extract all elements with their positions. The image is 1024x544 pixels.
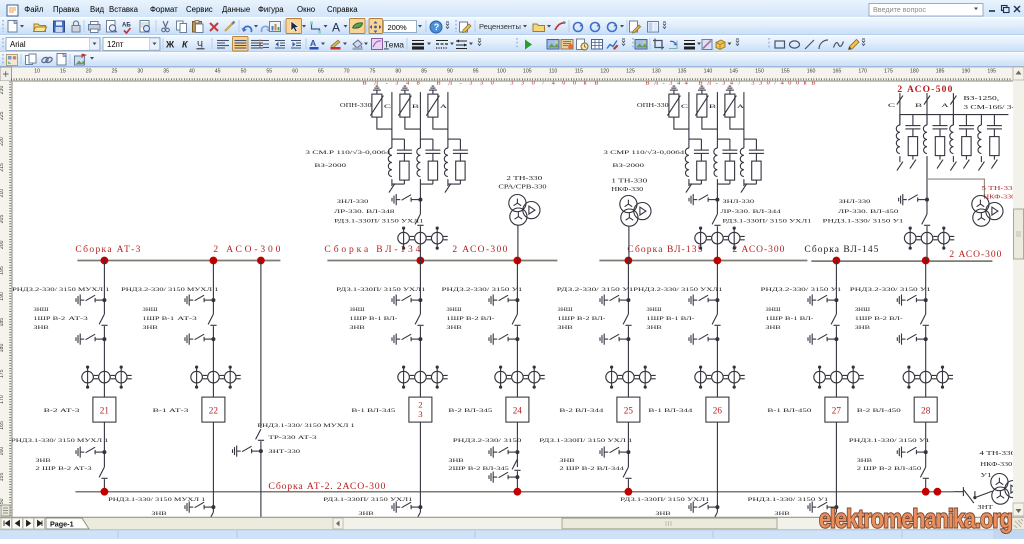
svg-text:В-2 ВЛ-345: В-2 ВЛ-345 (448, 408, 492, 414)
svg-text:А: А (941, 103, 948, 109)
wire phase С (688, 92, 690, 148)
toolbar icon crop (653, 39, 664, 50)
svg-text:170: 170 (858, 69, 867, 75)
svg-text:В: В (915, 103, 923, 109)
slash phase В (АСО-500) (924, 96, 930, 105)
toolbar icon clockpg (577, 39, 589, 50)
page navigation buttons (1, 518, 12, 529)
current transformers of feeder Q27 (814, 366, 864, 389)
earthing switch ЗНЛ-330 (АСО-500) (899, 194, 929, 205)
disconnector (lower) of Q28 (920, 467, 929, 478)
formatting toolbar row (0, 35, 1024, 52)
wire feeder Q26 below disconnector (716, 326, 718, 397)
svg-text:50: 50 (241, 69, 247, 75)
wire АСО-500 middle phase to bus 4 (926, 156, 928, 214)
toolbar icon shape window (533, 24, 545, 32)
toolbar icon line tool (805, 40, 814, 49)
toolbar icon export image (75, 54, 86, 65)
wire arrester to phase В (702, 117, 718, 129)
svg-text:30: 30 (137, 69, 143, 75)
wire phase А (АСО-500) (952, 93, 954, 125)
filter coil 3 (АСО-500) (952, 115, 954, 126)
wire feeder Q24 upper section (516, 261, 518, 315)
toolbar icon search (140, 21, 150, 33)
wire feeder Q25 upper section (627, 261, 629, 315)
toolbar icon delete (210, 23, 218, 31)
svg-text:Ж: Ж (165, 40, 175, 50)
svg-text:220: 220 (0, 137, 5, 146)
toolbar icon preview (107, 21, 117, 33)
svg-text:1ШР В-2: 1ШР В-2 (33, 316, 65, 322)
ask-a-question box (869, 4, 983, 17)
wire feeder Q21 to lower bus (103, 422, 105, 467)
svg-text:Сборка ВЛ-135: Сборка ВЛ-135 (627, 244, 702, 255)
svg-text:Вставка: Вставка (109, 5, 139, 14)
toolbar icon text tool (332, 21, 340, 35)
svg-text:ЗНВ: ЗНВ (446, 325, 462, 331)
svg-text:ЗНВ: ЗНВ (349, 325, 365, 331)
wire phase А (743, 92, 745, 148)
svg-text:В-2 ВЛ-344: В-2 ВЛ-344 (559, 408, 603, 414)
toolbar icon spelling (122, 23, 131, 34)
svg-text:ЗНВ: ЗНВ (765, 325, 781, 331)
resize grip (1012, 518, 1024, 530)
toolbar icon transparency (702, 40, 712, 50)
slash phase А (АСО-500) (950, 96, 956, 105)
svg-text:АТ-3: АТ-3 (68, 316, 88, 322)
toolbar icon rectangle tool (775, 41, 785, 48)
toolbar icon picture (635, 40, 647, 50)
svg-text:РНДЗ.1-330/ 3150 МУХЛ 1: РНДЗ.1-330/ 3150 МУХЛ 1 (257, 423, 355, 429)
svg-text:2 ШР В-2 ВЛ-450: 2 ШР В-2 ВЛ-450 (857, 466, 922, 472)
bus Сборка АТ-2, 2АСО-300 (lower) (75, 491, 953, 493)
svg-text:РДЗ.1-330П/ 3150 УХЛ1: РДЗ.1-330П/ 3150 УХЛ1 (336, 287, 425, 293)
svg-text:3: 3 (418, 409, 423, 419)
svg-text:ЛР-330. ВЛ-348: ЛР-330. ВЛ-348 (334, 209, 395, 215)
circuit breaker 24 (506, 397, 529, 422)
node: lower bus junction of Q21 (101, 488, 109, 496)
svg-text:ЗНШ: ЗНШ (446, 307, 462, 313)
toolbar icon page props (57, 54, 66, 66)
toolbar icon rotate (669, 41, 677, 49)
toolbar icon connector tool (310, 22, 321, 34)
node: bus junction of feeder Q24 (514, 257, 522, 265)
earthing switch ЗНВ of Q27 (808, 334, 838, 345)
disconnector (lower) of Q25 (623, 467, 632, 478)
disconnector below lower bus of Q27 (clipped) (831, 512, 840, 523)
svg-text:2 АСО-500: 2 АСО-500 (897, 85, 952, 95)
svg-text:ЗНВ: ЗНВ (559, 458, 575, 464)
toolbar icon columns (648, 22, 659, 33)
svg-text:ТР-330 АТ-3: ТР-330 АТ-3 (268, 435, 316, 441)
wire feeder Q28 to lower bus (925, 422, 927, 467)
toolbar icon pic2 (561, 40, 573, 50)
capacitor + resistor branch phase В (722, 139, 737, 184)
svg-text:75: 75 (370, 69, 376, 75)
svg-text:185: 185 (936, 69, 945, 75)
toolbar icon pan-zoom (370, 21, 382, 33)
wire ТН-330 to bus 3 (628, 226, 630, 260)
wire tap to 5 ТН-330 (927, 179, 984, 196)
svg-text:РДЗ.1-330П/ 3150 УХЛ1: РДЗ.1-330П/ 3150 УХЛ1 (334, 219, 423, 225)
earthing switch ЗНВ of Q22 (185, 334, 215, 345)
svg-text:105: 105 (523, 69, 532, 75)
svg-text:215: 215 (0, 163, 5, 172)
wire feeder Q22 below disconnector (212, 326, 214, 397)
wire feeder Q21 below disconnector (103, 326, 105, 397)
svg-text:Файл: Файл (24, 5, 44, 14)
svg-text:180: 180 (910, 69, 919, 75)
wire feeder Q26 crossing lower bus (716, 422, 718, 512)
filter capacitor+resistor 4 (АСО-500) (987, 115, 1002, 160)
earthing switch ЗНВ of Q24 (489, 334, 519, 345)
toolbar icon pic1 (547, 40, 559, 50)
line trap coil phase В (714, 148, 718, 176)
toolbar icon help (430, 21, 442, 33)
svg-text:Вид: Вид (90, 5, 105, 14)
current transformers of feeder Q28 (903, 366, 953, 389)
svg-text:25: 25 (624, 406, 634, 416)
line colour (331, 40, 340, 48)
slash below resistor 1 (910, 160, 916, 169)
toolbar icon refresh1 (574, 23, 584, 32)
svg-text:185: 185 (0, 318, 5, 327)
toolbar icon lock (72, 21, 80, 32)
wire phase С (391, 92, 393, 148)
svg-text:21: 21 (100, 406, 110, 416)
earthing switch ЗНВ of Q28 (897, 334, 927, 345)
svg-text:ВЗ-1250,: ВЗ-1250, (963, 96, 1000, 102)
slash phase С (АСО-500) (897, 96, 903, 105)
decrease indent (275, 41, 285, 49)
earthing switch (lower) of Q21 (76, 447, 106, 458)
svg-text:225: 225 (0, 111, 5, 120)
standard toolbar row (0, 17, 1024, 35)
toolbar icon ellipse tool (790, 41, 800, 48)
svg-text:26: 26 (713, 406, 723, 416)
wire re-join phase В (717, 179, 730, 184)
wire feeder Q21 upper section (103, 261, 105, 315)
vertical scrollbar thumb (1014, 209, 1024, 259)
svg-text:25: 25 (112, 69, 118, 75)
svg-text:195: 195 (987, 69, 996, 75)
wire re-join phase А (448, 179, 461, 184)
earthing switch 2 (lower) of Q24 (489, 472, 519, 483)
svg-text:95: 95 (473, 69, 479, 75)
svg-text:ОПН-330: ОПН-330 (340, 102, 372, 109)
svg-text:2 ШР В-2 АТ-3: 2 ШР В-2 АТ-3 (35, 466, 92, 472)
wire capacitor branch tap phase А (744, 138, 757, 140)
wire arrester to phase В (405, 117, 421, 129)
toolbar icon paste (193, 21, 204, 33)
svg-text:1ШР В-1: 1ШР В-1 (142, 316, 174, 322)
svg-text:А: А (440, 104, 447, 110)
toolbar icon pencil tool (849, 40, 860, 50)
svg-text:ЗНВ: ЗНВ (655, 511, 671, 517)
capacitor + resistor branch phase А (453, 139, 468, 184)
capacitor + resistor branch phase С (397, 139, 412, 184)
svg-text:155: 155 (0, 473, 5, 482)
svg-text:150: 150 (755, 69, 764, 75)
toolbar icon insert picture (270, 22, 281, 32)
svg-text:190: 190 (0, 292, 5, 301)
wire capacitor branch tap phase В (717, 138, 730, 140)
line trap coil phase С (388, 148, 392, 176)
toolbar icon freeform tool (353, 23, 363, 28)
current transformers of feeder Q24 (495, 366, 545, 389)
svg-text:ЗНШ: ЗНШ (646, 307, 662, 313)
svg-text:РНДЗ.2-330/ 3150 МУХЛ 1: РНДЗ.2-330/ 3150 МУХЛ 1 (12, 287, 110, 293)
svg-text:ЗНВ: ЗНВ (35, 458, 51, 464)
node: bus junction of feeder Q21 (101, 257, 109, 265)
wire feeder Q24 to lower bus (516, 422, 518, 467)
svg-text:РДЗ.1-330П/ 3150 УХЛ1: РДЗ.1-330П/ 3150 УХЛ1 (722, 219, 811, 225)
svg-text:60: 60 (292, 69, 298, 75)
slash below coil 1 (899, 156, 901, 162)
toolbar icon open (34, 24, 47, 32)
wire ТН-330 to bus 2 (517, 225, 519, 260)
wire capacitor branch tap phase В (420, 138, 433, 140)
wire capacitor branch tap phase С (689, 138, 702, 140)
svg-text:1ШР В-1 ВЛ-: 1ШР В-1 ВЛ- (349, 316, 397, 322)
svg-text:А: А (310, 38, 316, 48)
wire feeder Q28 upper section (925, 261, 927, 315)
svg-text:ЗНВ: ЗНВ (646, 325, 662, 331)
svg-text:Сервис: Сервис (186, 5, 213, 14)
svg-text:ЗНШ: ЗНШ (765, 307, 781, 313)
current transformers (АСО-500 incoming) (904, 227, 954, 250)
svg-text:ВЗ-2000: ВЗ-2000 (314, 163, 346, 169)
svg-text:РНДЗ.1-330/ 3150 У1: РНДЗ.1-330/ 3150 У1 (823, 219, 904, 225)
junction wire АСО-500 bank (900, 114, 1009, 116)
vertical ruler (0, 81, 12, 517)
svg-text:1ШР В-1 ВЛ-: 1ШР В-1 ВЛ- (646, 316, 694, 322)
bus Сборка ВЛ-145 / 2 АСО-300 (811, 260, 992, 262)
disconnector (АСО-500 incoming) (922, 214, 931, 225)
svg-text:3 СМР 110/√3-0,0064: 3 СМР 110/√3-0,0064 (603, 149, 684, 156)
earthing switch below lower bus of Q23 (392, 502, 422, 513)
svg-text:45: 45 (215, 69, 221, 75)
svg-text:Page-1: Page-1 (50, 520, 74, 529)
align right (251, 40, 263, 42)
svg-text:135: 135 (678, 69, 687, 75)
filter capacitor+resistor 2 (АСО-500) (933, 115, 948, 160)
surge arrester ОПН-330 phase А (426, 94, 439, 117)
disconnector of feeder Q26 (712, 314, 721, 325)
wire feeder Q27 upper section (835, 261, 837, 315)
wire phase В (716, 92, 718, 148)
svg-text:100: 100 (497, 69, 506, 75)
wire below disconnector (419, 226, 421, 260)
earthing switch ЗНШ of Q21 (76, 295, 106, 306)
toolbar icon refresh3 (608, 23, 618, 32)
svg-text:НКФ-330: НКФ-330 (611, 187, 643, 193)
toolbar icon run (525, 40, 532, 50)
drawing tool (highlighted) (350, 19, 366, 34)
circuit breaker 26 (706, 397, 729, 422)
disconnector of feeder Q23 (415, 314, 424, 325)
horizontal scrollbar thumb (562, 518, 777, 529)
horizontal ruler (0, 67, 1013, 81)
current transformers of feeder Q25 (606, 366, 656, 389)
svg-text:1ШР В-2 ВЛ-: 1ШР В-2 ВЛ- (446, 316, 494, 322)
circuit breaker 22 (202, 397, 225, 422)
wire phase С (АСО-500) (899, 93, 901, 125)
wire feeder Q22 crossing lower bus (212, 422, 214, 512)
current transformers of feeder Q22 (191, 366, 241, 389)
line weight (412, 40, 424, 42)
svg-text:ЗНЛ-330: ЗНЛ-330 (337, 199, 369, 205)
circuit breaker 23 (409, 397, 432, 422)
line ends (456, 41, 467, 49)
toolbar icon format painter (225, 22, 235, 32)
toolbar icon copy (177, 21, 187, 33)
slash continuation phase А (741, 184, 747, 193)
earthing switch ЗНЛ-330 (392, 194, 422, 205)
node: bus junction of feeder Q26 (714, 257, 722, 265)
filter capacitor+resistor 1 (АСО-500) (905, 115, 920, 160)
svg-text:РНДЗ.1-330/ 3150 МУХЛ 1: РНДЗ.1-330/ 3150 МУХЛ 1 (11, 438, 109, 444)
wire feeder Q23 upper section (419, 261, 421, 315)
earthing switch ЗНВ of Q23 (392, 334, 422, 345)
svg-text:130: 130 (652, 69, 661, 75)
svg-text:ЗНВ: ЗНВ (448, 458, 464, 464)
wire re-join phase А (744, 179, 757, 184)
toolbar icon table (592, 40, 603, 50)
svg-text:170: 170 (0, 395, 5, 404)
surge arrester ОПН-330 phase А (723, 94, 736, 117)
ground of surge arrester 2 (phase А) (726, 86, 734, 94)
earthing switch (lower) of Q25 (600, 447, 630, 458)
svg-text:155: 155 (781, 69, 790, 75)
wire below disconnector (716, 226, 718, 260)
svg-text:В-1 ВЛ-345: В-1 ВЛ-345 (351, 408, 395, 414)
svg-text:ЗНВ: ЗНВ (774, 511, 790, 517)
theme button (372, 39, 383, 50)
svg-text:ЗНШ: ЗНШ (855, 307, 871, 313)
svg-text:ЗНЛ-330: ЗНЛ-330 (722, 199, 754, 205)
toolbar icon new (8, 21, 17, 33)
svg-text:РДЗ.2-330/ 3150 У1: РДЗ.2-330/ 3150 У1 (557, 287, 634, 293)
svg-text:АТ-3: АТ-3 (177, 316, 197, 322)
svg-text:ЗНШ: ЗНШ (349, 307, 365, 313)
disconnector of feeder Q28 (920, 314, 929, 325)
picture line weight (684, 40, 695, 42)
wire feeder Q27 crossing lower bus (835, 422, 837, 512)
filter coil 2 (АСО-500) (926, 115, 928, 126)
svg-text:12пт: 12пт (107, 40, 124, 49)
surge arrester ОПН-330 phase С (370, 94, 383, 117)
toolbar icon shapes window (7, 55, 18, 66)
svg-text:27: 27 (832, 406, 842, 416)
svg-text:85: 85 (421, 69, 427, 75)
voltage transformer 5 ТН-330 (972, 196, 1003, 227)
svg-text:РНДЗ.2-330/ 3150 УХЛ1: РНДЗ.2-330/ 3150 УХЛ1 (633, 287, 722, 293)
svg-text:80: 80 (395, 69, 401, 75)
earthing switch ЗНШ of Q23 (392, 295, 422, 306)
pointer tool (highlighted) (286, 19, 302, 34)
svg-text:РНДЗ.2-330/ 3150: РНДЗ.2-330/ 3150 (453, 438, 522, 444)
ruler corner box (0, 67, 12, 81)
earthing switch ЗНШ of Q27 (808, 295, 838, 306)
status bar (0, 530, 1024, 540)
bullets (259, 41, 261, 48)
earthing switch below lower bus of Q26 (689, 502, 719, 513)
node: bus junction of feeder Q23 (417, 257, 425, 265)
svg-text:РДЗ.1-330П/ 3150 УХЛ 1: РДЗ.1-330П/ 3150 УХЛ 1 (539, 438, 632, 444)
svg-text:ЗНВ: ЗНВ (557, 325, 573, 331)
earthing switch (lower) of Q28 (897, 447, 927, 458)
wire feeder Q22 upper section (212, 261, 214, 315)
font size combo (103, 38, 160, 51)
wire feeder Q23 crossing lower bus (419, 422, 421, 512)
svg-text:Arial: Arial (10, 40, 26, 49)
disconnector of feeder Q27 (831, 314, 840, 325)
svg-text:ЗНВ: ЗНВ (855, 325, 871, 331)
toolbar icon page layers (26, 54, 37, 65)
slash below resistor 2 (937, 160, 943, 169)
svg-text:180: 180 (0, 344, 5, 353)
svg-text:ЗНТ-330: ЗНТ-330 (268, 449, 300, 455)
svg-text:ЗНВ: ЗНВ (151, 511, 167, 517)
mini page icon bottom-left (1, 505, 10, 516)
svg-text:Сборка АТ-2. 2АСО-300: Сборка АТ-2. 2АСО-300 (268, 481, 385, 492)
slash below coil 4 (980, 156, 982, 162)
wire phase В (АСО-500) (926, 93, 928, 125)
earthing switch ЗНВ of Q21 (76, 334, 106, 345)
svg-text:РНДЗ.1-330/ 3150 У1: РНДЗ.1-330/ 3150 У1 (748, 497, 829, 503)
svg-text:210: 210 (0, 189, 5, 198)
svg-text:24: 24 (513, 406, 523, 416)
bus Сборка ВЛ-134 / 2 АСО-300 (327, 260, 557, 262)
svg-text:elektromehanika.org: elektromehanika.org (819, 506, 1012, 534)
pan tool (highlighted) (369, 19, 383, 34)
earthing switch ЗНШ of Q26 (689, 295, 719, 306)
wire arrester to phase А (433, 117, 448, 129)
earthing switch ЗНТ-330 (233, 446, 263, 457)
wire feeder Q26 upper section (716, 261, 718, 315)
svg-text:165: 165 (833, 69, 842, 75)
disconnector of feeder Q21 (99, 314, 108, 325)
wire feeder Q28 below disconnector (925, 326, 927, 397)
fill colour (353, 40, 362, 48)
svg-text:120: 120 (600, 69, 609, 75)
wire phase А (447, 92, 449, 148)
voltage transformer 1 ТН-330 (620, 196, 651, 227)
svg-text:ЗНВ: ЗНВ (857, 458, 873, 464)
svg-text:15: 15 (60, 69, 66, 75)
slash below coil 3 (952, 156, 954, 162)
page tab bar (0, 517, 1024, 530)
svg-text:28: 28 (921, 406, 931, 416)
line trap coil phase В (417, 148, 421, 176)
toolbar icon print (89, 22, 101, 33)
svg-text:40: 40 (189, 69, 195, 75)
svg-text:РНДЗ.2-330/ 3150 У1: РНДЗ.2-330/ 3150 У1 (441, 287, 522, 293)
svg-text:РНДЗ.1-330/ 3150 У1: РНДЗ.1-330/ 3150 У1 (849, 438, 930, 444)
disconnector of feeder Q25 (623, 314, 632, 325)
ground of surge arrester 1 (phase С) (373, 86, 381, 94)
toolbar icon redo (262, 26, 272, 32)
disconnector (lower) of Q24 (512, 459, 521, 470)
line trap coil phase С (685, 148, 689, 176)
svg-text:ЗНВ: ЗНВ (358, 511, 374, 517)
bus Сборка ВЛ-135 / 2 АСО-300 (599, 260, 807, 262)
svg-text:A: A (332, 21, 340, 35)
align centre (highlighted) (233, 37, 249, 52)
svg-text:5 ТН-330: 5 ТН-330 (981, 186, 1017, 192)
earthing switch ЗНШ of Q24 (489, 295, 519, 306)
